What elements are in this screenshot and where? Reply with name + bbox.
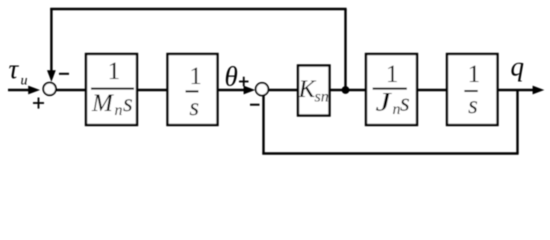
svg-text:J: J <box>376 88 393 117</box>
svg-text:u: u <box>21 74 28 89</box>
svg-text:1: 1 <box>108 58 121 85</box>
svg-text:s: s <box>468 92 478 119</box>
svg-text:s: s <box>400 90 410 117</box>
svg-text:s: s <box>189 94 199 121</box>
wire input tau_u <box>8 86 40 95</box>
svg-text:sn: sn <box>315 89 329 106</box>
label plus at S1 <box>33 98 44 109</box>
label minus at S1 <box>59 73 69 75</box>
label 1/(Jn s) in B3 <box>373 61 410 118</box>
summing junction S1 <box>43 83 56 96</box>
wire S2 to block K <box>269 89 298 91</box>
summing junction S2 <box>256 83 269 96</box>
label tau_u <box>9 54 28 89</box>
svg-text:τ: τ <box>9 54 20 84</box>
wire output branch down <box>516 89 518 154</box>
svg-text:q: q <box>511 52 525 82</box>
label minus at S2 <box>250 104 260 106</box>
wire bottom feedback up into S2 <box>262 96 264 155</box>
label plus at S2 <box>239 77 249 87</box>
block B2 box <box>168 54 218 125</box>
label Ksn <box>298 76 329 106</box>
wire S1 to block B1 <box>56 89 86 91</box>
wire bottom feedback horizontal <box>262 152 518 154</box>
svg-text:n: n <box>115 102 123 119</box>
block B3 box <box>366 54 417 125</box>
wire B2 to S2 with arrow <box>218 86 255 95</box>
wire B1 to B2 <box>137 89 168 91</box>
wire node up <box>344 9 346 90</box>
svg-text:1: 1 <box>189 63 202 90</box>
svg-text:s: s <box>123 90 133 117</box>
block B4 box <box>447 54 498 125</box>
svg-text:1: 1 <box>386 61 399 88</box>
node dot after K <box>342 86 350 94</box>
label 1/s in B4 <box>464 61 480 119</box>
svg-text:M: M <box>91 90 114 117</box>
label 1/s in B2 <box>186 63 202 121</box>
wire top feedback horizontal <box>50 8 346 10</box>
block K box <box>298 66 330 116</box>
block B1 box <box>86 54 137 125</box>
wire K to block B3 <box>330 89 366 91</box>
wire top feedback down into S1 <box>47 8 56 82</box>
svg-text:1: 1 <box>468 61 481 88</box>
wire B3 to B4 <box>417 89 447 91</box>
label 1/(Mn s) in B1 <box>91 58 134 119</box>
svg-text:θ: θ <box>225 62 238 92</box>
wire output q <box>498 86 545 95</box>
